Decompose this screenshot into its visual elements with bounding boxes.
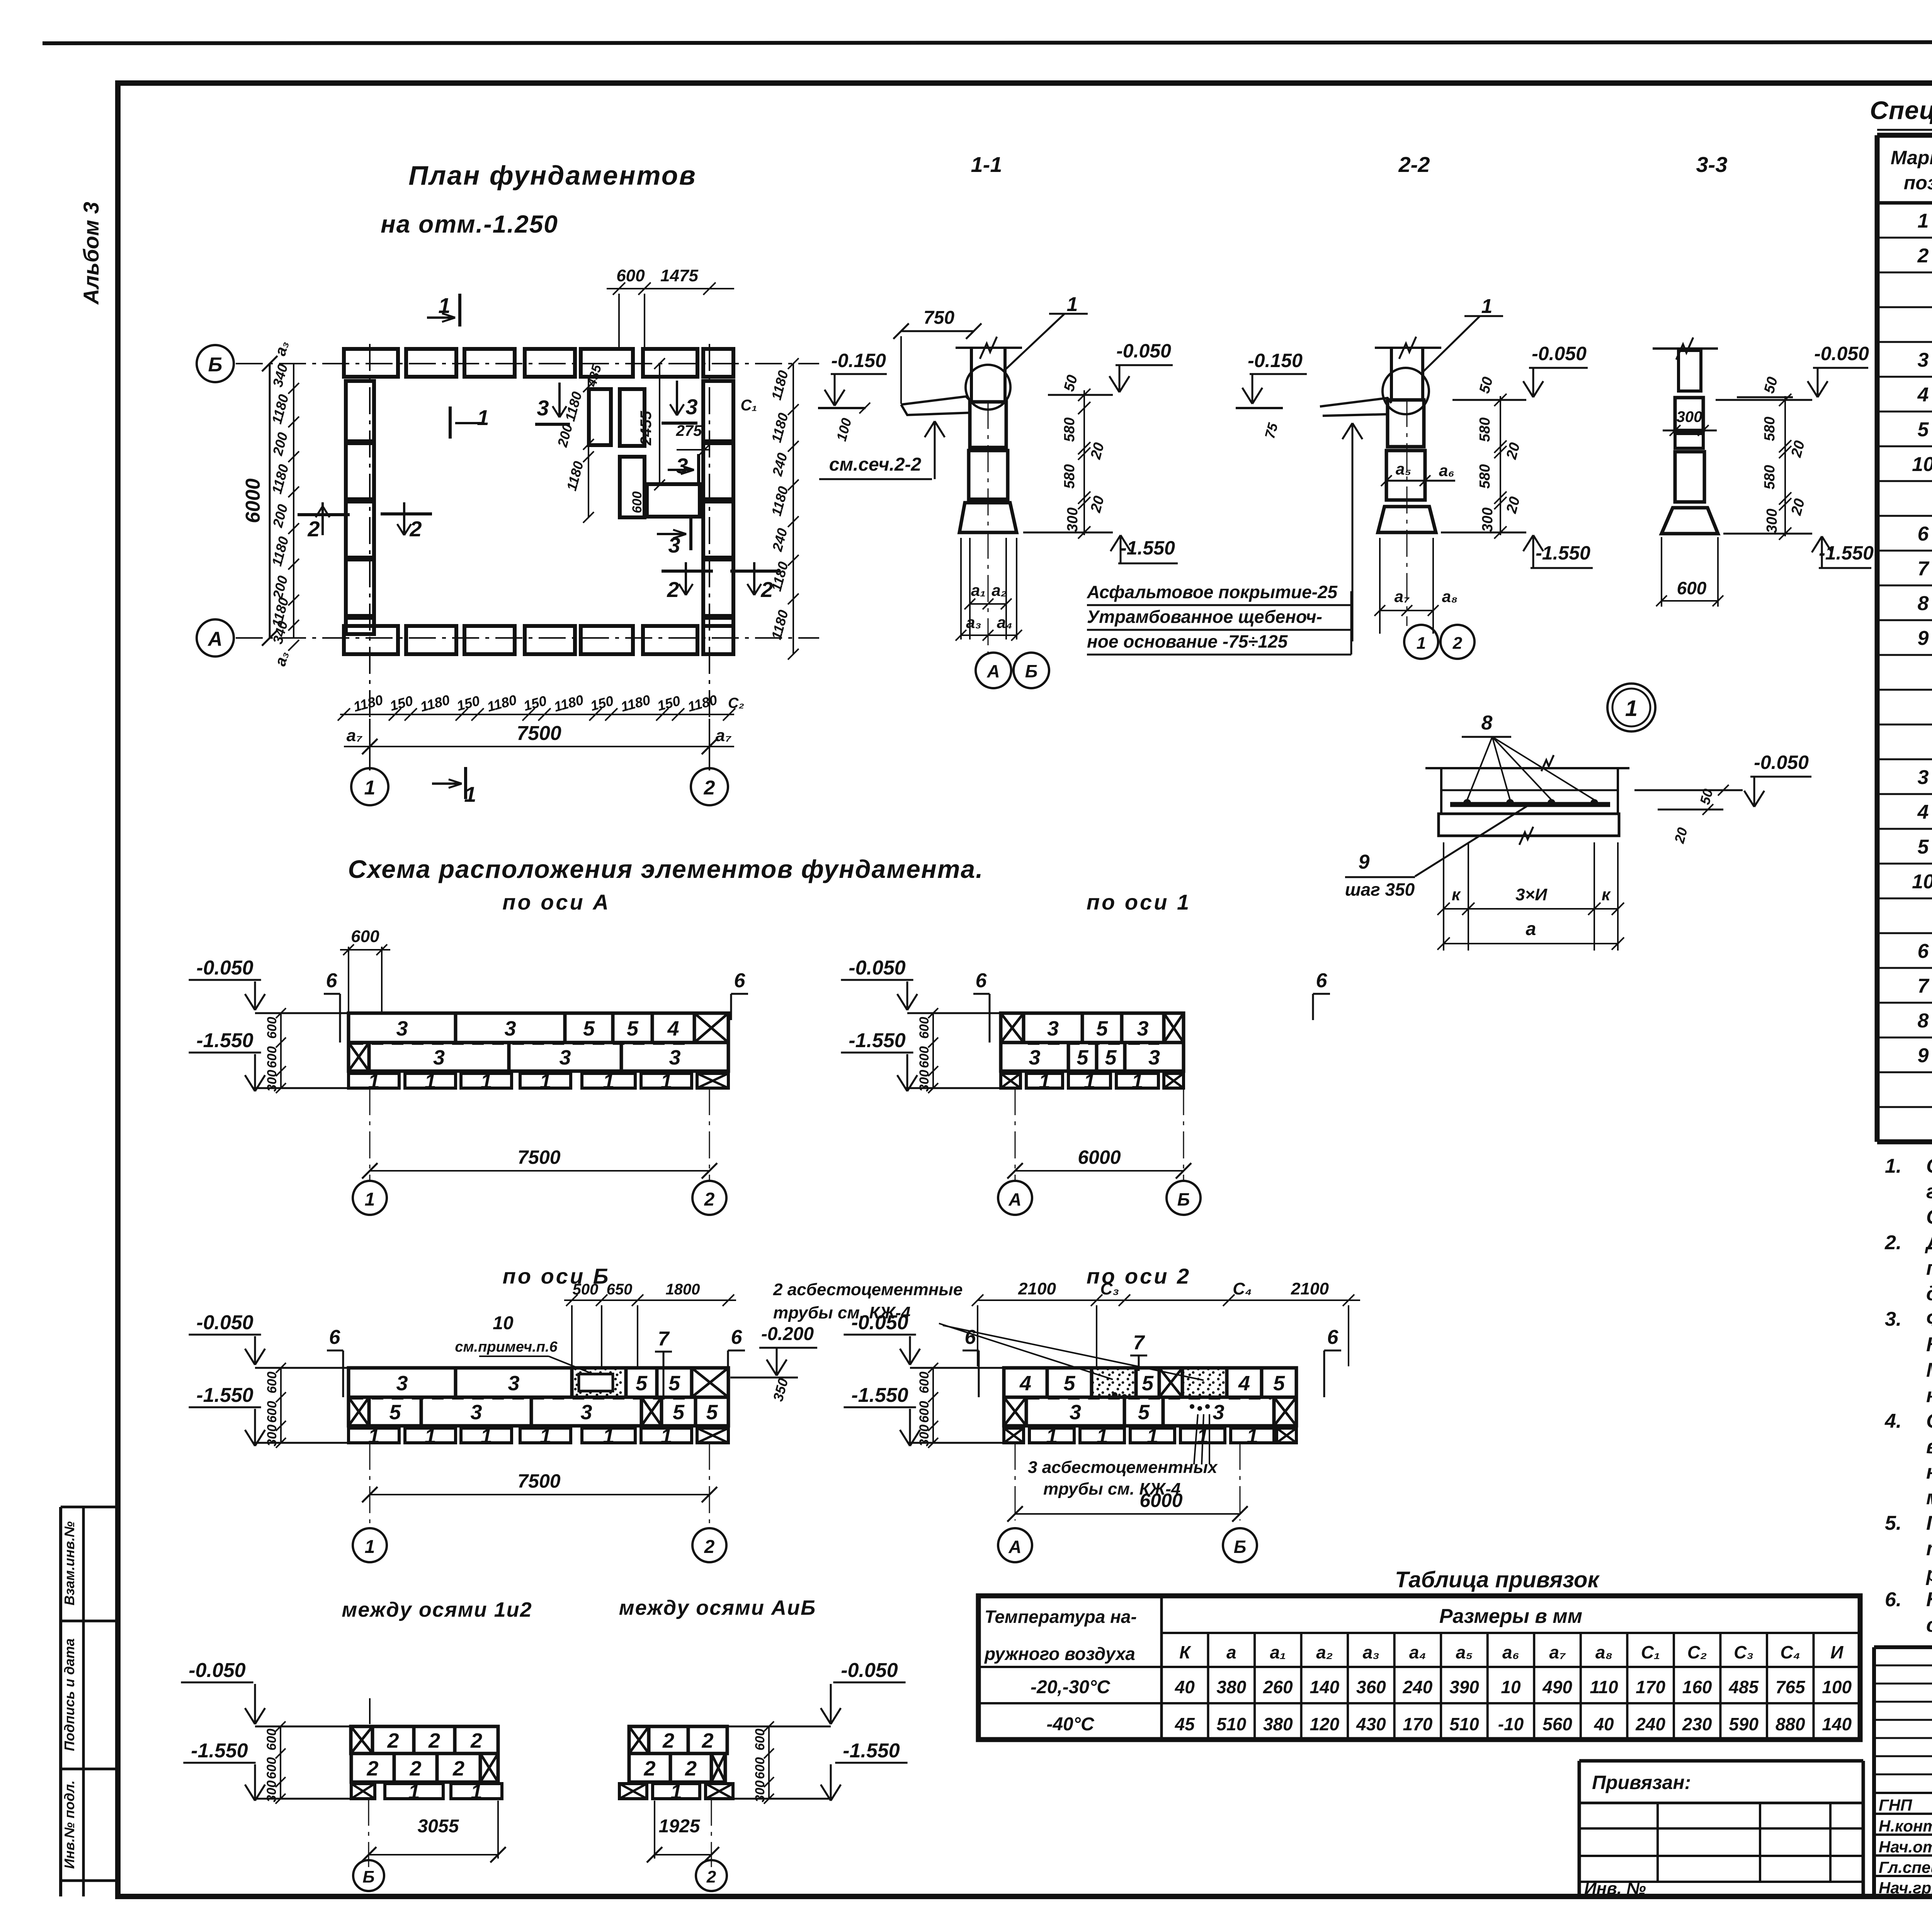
- svg-text:580: 580: [1061, 417, 1078, 442]
- svg-text:600: 600: [265, 1401, 279, 1423]
- svg-text:С₄: С₄: [1233, 1279, 1252, 1298]
- svg-text:600: 600: [616, 266, 645, 285]
- svg-text:4: 4: [667, 1017, 679, 1040]
- svg-text:между осями АиБ: между осями АиБ: [619, 1596, 816, 1619]
- svg-text:а₃: а₃: [966, 613, 981, 631]
- svg-text:а₈: а₈: [1442, 587, 1458, 605]
- svg-text:5: 5: [1142, 1372, 1154, 1395]
- svg-text:110: 110: [1590, 1677, 1618, 1697]
- svg-text:6.: 6.: [1885, 1588, 1901, 1611]
- svg-text:между осями 1и2: между осями 1и2: [342, 1598, 532, 1621]
- svg-text:С₄: С₄: [1780, 1642, 1800, 1662]
- svg-text:шаг 350: шаг 350: [1345, 879, 1415, 900]
- svg-text:1: 1: [365, 1537, 375, 1557]
- svg-text:3: 3: [508, 1372, 519, 1395]
- svg-text:3-3: 3-3: [1696, 152, 1728, 177]
- svg-text:1: 1: [424, 1425, 436, 1448]
- svg-text:а₇: а₇: [347, 726, 362, 745]
- svg-text:а₇: а₇: [716, 726, 731, 745]
- svg-text:С₁: С₁: [1641, 1642, 1660, 1662]
- svg-text:1: 1: [477, 405, 489, 430]
- svg-text:см.сеч.2-2: см.сеч.2-2: [829, 454, 922, 475]
- svg-text:600: 600: [917, 1372, 932, 1394]
- svg-text:2: 2: [667, 577, 679, 602]
- svg-text:С₂: С₂: [1687, 1642, 1707, 1662]
- svg-text:230: 230: [1682, 1714, 1712, 1734]
- svg-text:3: 3: [1047, 1017, 1059, 1040]
- svg-text:380: 380: [1263, 1714, 1293, 1734]
- svg-text:а₅: а₅: [1396, 460, 1411, 478]
- svg-text:560: 560: [1543, 1714, 1572, 1734]
- svg-text:5: 5: [1077, 1046, 1088, 1069]
- svg-text:510: 510: [1449, 1714, 1479, 1734]
- svg-text:1: 1: [539, 1070, 551, 1093]
- svg-text:1: 1: [603, 1425, 614, 1448]
- svg-text:3 асбестоцементных: 3 асбестоцементных: [1028, 1458, 1218, 1477]
- svg-text:3: 3: [433, 1046, 445, 1069]
- svg-text:-1.550: -1.550: [849, 1029, 906, 1052]
- svg-text:2: 2: [409, 1757, 421, 1780]
- svg-text:поз.: поз.: [1904, 172, 1932, 194]
- svg-text:ружного воздуха: ружного воздуха: [984, 1644, 1135, 1664]
- svg-text:8: 8: [1481, 712, 1493, 734]
- svg-text:9: 9: [1918, 627, 1929, 650]
- svg-text:ное основание -75÷125: ное основание -75÷125: [1087, 631, 1288, 651]
- svg-text:6: 6: [731, 1326, 743, 1349]
- svg-text:почвенно-растительный слой сре: почвенно-растительный слой срезать полно…: [1926, 1257, 1932, 1279]
- svg-text:3055: 3055: [418, 1816, 459, 1837]
- svg-text:3: 3: [396, 1017, 408, 1040]
- svg-text:Гл.спец.: Гл.спец.: [1879, 1858, 1932, 1876]
- svg-text:2100: 2100: [1291, 1279, 1329, 1298]
- svg-text:5: 5: [1105, 1046, 1117, 1069]
- svg-text:2: 2: [704, 1537, 715, 1557]
- svg-text:тонный пояс выполняется из цем: тонный пояс выполняется из цементно-песч…: [1926, 1537, 1932, 1560]
- svg-text:-0.050: -0.050: [189, 1659, 246, 1682]
- svg-text:510: 510: [1216, 1714, 1246, 1734]
- svg-text:-1.550: -1.550: [196, 1029, 253, 1052]
- svg-text:а₄: а₄: [1409, 1642, 1426, 1662]
- svg-text:45: 45: [1175, 1714, 1196, 1734]
- svg-text:100: 100: [1822, 1677, 1852, 1697]
- svg-text:для дальнейшего использования: для дальнейшего использования его при оз…: [1926, 1282, 1932, 1305]
- svg-text:2: 2: [470, 1729, 482, 1752]
- svg-text:а₅: а₅: [1456, 1642, 1473, 1662]
- svg-text:1: 1: [1067, 293, 1078, 316]
- svg-text:2: 2: [706, 1867, 716, 1886]
- svg-text:к: к: [1602, 885, 1611, 904]
- svg-text:300: 300: [1480, 507, 1496, 532]
- svg-text:590: 590: [1729, 1714, 1759, 1734]
- svg-text:1: 1: [1046, 1425, 1058, 1448]
- svg-text:Взам.инв.№: Взам.инв.№: [61, 1521, 77, 1605]
- svg-text:2100: 2100: [1018, 1279, 1056, 1298]
- svg-text:1: 1: [1417, 634, 1426, 653]
- svg-text:485: 485: [1728, 1677, 1759, 1697]
- svg-text:1475: 1475: [660, 266, 698, 285]
- svg-text:а₆: а₆: [1439, 461, 1454, 480]
- svg-text:390: 390: [1449, 1677, 1479, 1697]
- svg-text:300: 300: [1764, 509, 1780, 533]
- svg-text:580: 580: [1061, 464, 1078, 488]
- svg-text:600: 600: [351, 927, 379, 946]
- svg-text:3: 3: [396, 1372, 408, 1395]
- svg-text:-0.050: -0.050: [1116, 340, 1171, 362]
- svg-text:1925: 1925: [659, 1816, 701, 1837]
- svg-text:Температура на-: Температура на-: [985, 1607, 1137, 1627]
- svg-text:-10: -10: [1498, 1714, 1524, 1734]
- svg-text:170: 170: [1636, 1677, 1665, 1697]
- svg-text:-0.050: -0.050: [1814, 343, 1869, 364]
- svg-text:трубы см. КЖ-4: трубы см. КЖ-4: [773, 1303, 910, 1322]
- svg-text:а: а: [1526, 919, 1536, 939]
- svg-text:Размеры в мм: Размеры в мм: [1439, 1605, 1582, 1628]
- svg-text:1: 1: [1247, 1425, 1258, 1448]
- svg-text:600: 600: [265, 1017, 279, 1039]
- svg-text:а₇: а₇: [1395, 587, 1410, 605]
- svg-text:1: 1: [1083, 1070, 1095, 1093]
- svg-text:менее 0.95.: менее 0.95.: [1926, 1486, 1932, 1509]
- svg-text:2: 2: [685, 1757, 697, 1780]
- svg-text:2: 2: [662, 1729, 674, 1752]
- svg-text:Б: Б: [362, 1867, 374, 1886]
- svg-text:Подпись и дата: Подпись и дата: [61, 1638, 77, 1751]
- svg-text:7: 7: [658, 1328, 670, 1350]
- svg-text:а₁: а₁: [1270, 1642, 1286, 1662]
- svg-text:ГНП: ГНП: [1879, 1796, 1912, 1814]
- svg-text:3: 3: [1148, 1046, 1160, 1069]
- svg-text:600: 600: [917, 1017, 932, 1039]
- svg-text:2: 2: [387, 1729, 399, 1752]
- svg-text:1: 1: [603, 1070, 614, 1093]
- svg-text:на отм.-1.250: на отм.-1.250: [381, 210, 558, 238]
- svg-text:4: 4: [1917, 801, 1929, 823]
- svg-text:3: 3: [1918, 349, 1929, 371]
- svg-text:а₈: а₈: [1595, 1642, 1612, 1662]
- svg-text:Фундаментные плиты укладываютс: Фундаментные плиты укладываются на вырав…: [1926, 1308, 1932, 1330]
- svg-text:-0.050: -0.050: [849, 957, 906, 979]
- svg-text:5: 5: [627, 1017, 639, 1040]
- svg-text:2: 2: [704, 1189, 715, 1210]
- svg-text:-0.050: -0.050: [1754, 752, 1809, 773]
- svg-text:с шагом 100 мм.: с шагом 100 мм.: [1926, 1614, 1932, 1636]
- svg-text:К: К: [1179, 1642, 1191, 1662]
- svg-text:1: 1: [1481, 295, 1493, 318]
- svg-text:а₂: а₂: [1316, 1642, 1333, 1662]
- svg-text:2455: 2455: [638, 411, 655, 446]
- svg-text:-1.550: -1.550: [196, 1384, 253, 1406]
- svg-text:1: 1: [670, 1781, 682, 1804]
- svg-text:Горизонтальная, гидроизоляция: Горизонтальная, гидроизоляция и монолитн…: [1926, 1512, 1932, 1534]
- svg-text:160: 160: [1682, 1677, 1712, 1697]
- svg-text:7: 7: [1133, 1332, 1145, 1354]
- svg-text:-1.550: -1.550: [843, 1740, 900, 1762]
- svg-text:2: 2: [307, 517, 320, 541]
- svg-text:5: 5: [1138, 1401, 1150, 1424]
- svg-text:1: 1: [1131, 1070, 1143, 1093]
- svg-text:3: 3: [504, 1017, 516, 1040]
- svg-text:А: А: [1008, 1189, 1021, 1209]
- svg-text:6: 6: [1918, 940, 1929, 963]
- svg-text:6: 6: [734, 969, 746, 992]
- svg-text:3: 3: [559, 1046, 571, 1069]
- svg-text:Инв. №: Инв. №: [1584, 1879, 1646, 1898]
- svg-text:к: к: [1452, 885, 1461, 904]
- svg-text:650: 650: [607, 1281, 633, 1298]
- svg-text:Утрамбованное щебеноч-: Утрамбованное щебеноч-: [1087, 607, 1322, 627]
- svg-text:А: А: [207, 628, 223, 650]
- svg-text:5.: 5.: [1885, 1512, 1901, 1534]
- svg-text:6000: 6000: [242, 478, 264, 523]
- svg-text:120: 120: [1310, 1714, 1339, 1734]
- svg-text:М50.Швы между блоками заполняю: М50.Швы между блоками заполняются цемент…: [1926, 1359, 1932, 1381]
- svg-text:5: 5: [668, 1372, 680, 1395]
- svg-text:3: 3: [1137, 1017, 1148, 1040]
- svg-text:2.: 2.: [1884, 1231, 1901, 1254]
- svg-text:-0.050: -0.050: [841, 1659, 898, 1682]
- svg-text:2: 2: [409, 517, 422, 541]
- svg-text:580: 580: [1477, 464, 1493, 488]
- svg-text:600: 600: [264, 1729, 279, 1751]
- svg-text:3: 3: [537, 396, 549, 420]
- svg-text:6: 6: [1327, 1326, 1339, 1349]
- svg-text:всех сторон фундамента слоями: всех сторон фундамента слоями по 0.2-0.3…: [1926, 1435, 1932, 1458]
- svg-text:1: 1: [539, 1425, 551, 1448]
- svg-text:300: 300: [1065, 507, 1081, 532]
- svg-text:430: 430: [1356, 1714, 1386, 1734]
- svg-text:Б: Б: [1234, 1537, 1247, 1557]
- svg-text:2: 2: [1917, 245, 1929, 267]
- svg-text:Таблица привязок: Таблица привязок: [1395, 1567, 1600, 1592]
- svg-text:-0.050: -0.050: [1532, 343, 1587, 364]
- svg-text:Над проемом установить отдельн: Над проемом установить отдельные стержни…: [1926, 1588, 1932, 1611]
- svg-text:Спецификация элементов к схеме: Спецификация элементов к схеме расположе…: [1870, 96, 1932, 124]
- svg-text:140: 140: [1822, 1714, 1852, 1734]
- svg-text:8: 8: [1918, 592, 1929, 615]
- svg-text:6: 6: [1918, 523, 1929, 545]
- svg-text:-0.050: -0.050: [196, 957, 253, 979]
- svg-text:10: 10: [1912, 453, 1932, 476]
- svg-text:5: 5: [1918, 418, 1929, 441]
- svg-text:1: 1: [471, 1781, 482, 1804]
- svg-text:5: 5: [1273, 1372, 1285, 1395]
- svg-text:3: 3: [669, 1046, 680, 1069]
- svg-text:170: 170: [1403, 1714, 1433, 1734]
- svg-text:-0.050: -0.050: [196, 1311, 253, 1334]
- svg-text:7500: 7500: [517, 1146, 560, 1168]
- svg-text:Асфальтовое покрытие-25: Асфальтовое покрытие-25: [1087, 582, 1338, 602]
- svg-text:4: 4: [1238, 1372, 1250, 1395]
- svg-text:3: 3: [1070, 1401, 1081, 1424]
- svg-text:3: 3: [1029, 1046, 1040, 1069]
- svg-text:4.: 4.: [1884, 1410, 1901, 1432]
- svg-text:а₆: а₆: [1502, 1642, 1519, 1662]
- svg-text:240: 240: [1403, 1677, 1433, 1697]
- svg-text:600: 600: [264, 1757, 279, 1779]
- svg-text:-20,-30°С: -20,-30°С: [1031, 1677, 1111, 1697]
- svg-text:600: 600: [265, 1046, 279, 1068]
- svg-text:1: 1: [408, 1781, 420, 1804]
- svg-text:6: 6: [976, 969, 987, 992]
- svg-text:Схема расположения элементов: Схема расположения элементов фундамента.: [348, 855, 984, 883]
- svg-text:2 асбестоцементные: 2 асбестоцементные: [773, 1280, 963, 1299]
- svg-text:1: 1: [1918, 210, 1929, 232]
- svg-text:Обратную засыпку котлована про: Обратную засыпку котлована производить р…: [1926, 1410, 1932, 1432]
- svg-text:а: а: [1226, 1642, 1236, 1662]
- svg-text:Б: Б: [1025, 661, 1038, 681]
- svg-text:7500: 7500: [517, 1470, 560, 1492]
- svg-text:С₁: С₁: [741, 397, 757, 414]
- svg-text:2: 2: [704, 777, 715, 799]
- svg-text:5: 5: [706, 1401, 718, 1424]
- svg-text:140: 140: [1310, 1677, 1339, 1697]
- svg-text:-1.550: -1.550: [1536, 542, 1590, 564]
- svg-text:5: 5: [1096, 1017, 1108, 1040]
- svg-text:600: 600: [753, 1729, 767, 1751]
- svg-text:ным раствором М50.: ным раствором М50.: [1926, 1384, 1932, 1407]
- svg-text:380: 380: [1216, 1677, 1246, 1697]
- svg-text:1: 1: [364, 777, 376, 799]
- svg-text:500: 500: [573, 1281, 599, 1298]
- svg-text:5: 5: [389, 1401, 401, 1424]
- svg-text:раствора М50.: раствора М50.: [1925, 1563, 1932, 1585]
- svg-text:6000: 6000: [1139, 1490, 1182, 1511]
- svg-text:3: 3: [470, 1401, 482, 1424]
- svg-text:360: 360: [1356, 1677, 1386, 1697]
- svg-text:1: 1: [365, 1189, 375, 1210]
- svg-text:9: 9: [1359, 851, 1370, 873]
- svg-text:а₇: а₇: [1549, 1642, 1566, 1662]
- svg-text:4: 4: [1917, 384, 1929, 406]
- svg-text:1800: 1800: [666, 1281, 700, 1298]
- svg-text:1: 1: [1146, 1425, 1158, 1448]
- svg-text:10: 10: [493, 1313, 514, 1333]
- svg-text:Основанием под фундаменты прин: Основанием под фундаменты приняты непучи…: [1926, 1155, 1932, 1177]
- svg-text:600: 600: [917, 1046, 932, 1068]
- svg-text:1: 1: [480, 1425, 492, 1448]
- svg-text:3: 3: [1918, 766, 1929, 789]
- svg-text:1-1: 1-1: [971, 152, 1002, 177]
- svg-text:5: 5: [1918, 836, 1929, 858]
- svg-text:Нач.гр.: Нач.гр.: [1879, 1879, 1932, 1897]
- svg-text:-1.550: -1.550: [851, 1384, 908, 1406]
- svg-text:240: 240: [1635, 1714, 1665, 1734]
- svg-text:600: 600: [1677, 578, 1707, 598]
- svg-text:580: 580: [1762, 417, 1778, 441]
- svg-text:7500: 7500: [517, 722, 561, 745]
- svg-text:см.примеч.п.6: см.примеч.п.6: [455, 1339, 558, 1355]
- svg-text:С=0,02 кгс/м², Е=150кгс/м², γ: С=0,02 кгс/м², Е=150кгс/м², γ=1.8 тс/м³,…: [1926, 1206, 1932, 1228]
- svg-text:Марка,: Марка,: [1891, 147, 1932, 168]
- svg-text:6: 6: [965, 1326, 976, 1349]
- svg-text:2: 2: [1452, 634, 1463, 653]
- svg-text:нием до достижения коэффициент: нием до достижения коэффициента уплотнен…: [1926, 1461, 1932, 1483]
- svg-text:Б: Б: [1177, 1189, 1190, 1209]
- svg-text:Альбом 3: Альбом 3: [79, 202, 103, 305]
- svg-text:2-2: 2-2: [1398, 152, 1430, 177]
- svg-text:а₂: а₂: [992, 581, 1007, 599]
- svg-text:7: 7: [1918, 558, 1930, 580]
- svg-text:40: 40: [1594, 1714, 1614, 1734]
- svg-text:600: 600: [917, 1401, 932, 1423]
- svg-text:3: 3: [580, 1401, 592, 1424]
- svg-text:580: 580: [1762, 465, 1778, 489]
- svg-text:4: 4: [1019, 1372, 1031, 1395]
- svg-text:С₃: С₃: [1734, 1642, 1753, 1662]
- svg-text:А: А: [986, 661, 1000, 681]
- svg-text:6: 6: [326, 969, 338, 992]
- svg-text:9: 9: [1918, 1044, 1929, 1067]
- svg-text:С₂: С₂: [728, 695, 744, 711]
- svg-text:1: 1: [1039, 1070, 1050, 1093]
- svg-text:по оси 1: по оси 1: [1087, 890, 1191, 914]
- svg-text:580: 580: [1477, 417, 1493, 442]
- svg-text:А: А: [1008, 1537, 1021, 1557]
- svg-text:10: 10: [1912, 871, 1932, 893]
- svg-text:2: 2: [452, 1757, 464, 1780]
- svg-text:-0.200: -0.200: [761, 1324, 814, 1344]
- svg-text:5: 5: [1063, 1372, 1075, 1395]
- svg-text:С₃: С₃: [1100, 1279, 1119, 1298]
- svg-text:1: 1: [1625, 696, 1638, 721]
- svg-text:1: 1: [1096, 1425, 1108, 1448]
- svg-text:-1.550: -1.550: [191, 1740, 248, 1762]
- svg-text:1: 1: [480, 1070, 492, 1093]
- svg-text:6000: 6000: [1078, 1146, 1121, 1168]
- svg-text:3: 3: [685, 395, 697, 419]
- svg-text:-40°С: -40°С: [1046, 1714, 1095, 1735]
- svg-text:5: 5: [583, 1017, 595, 1040]
- svg-text:2: 2: [760, 577, 773, 602]
- svg-text:грунты со следующими нормативн: грунты со следующими нормативными характ…: [1926, 1180, 1932, 1203]
- svg-text:3: 3: [1213, 1401, 1224, 1424]
- svg-text:1.: 1.: [1885, 1155, 1901, 1177]
- svg-text:765: 765: [1776, 1677, 1806, 1697]
- svg-text:3.: 3.: [1885, 1308, 1901, 1330]
- svg-text:490: 490: [1542, 1677, 1572, 1697]
- svg-text:а₁: а₁: [971, 581, 986, 599]
- svg-text:5: 5: [673, 1401, 685, 1424]
- svg-text:300: 300: [1677, 408, 1702, 425]
- svg-text:6: 6: [1316, 969, 1328, 992]
- svg-text:Инв.№ подл.: Инв.№ подл.: [61, 1780, 77, 1869]
- svg-text:по оси А: по оси А: [502, 890, 611, 914]
- svg-text:-0.150: -0.150: [831, 350, 886, 371]
- svg-text:40: 40: [1175, 1677, 1195, 1697]
- svg-text:Нач.отд.: Нач.отд.: [1879, 1838, 1932, 1856]
- svg-text:Привязан:: Привязан:: [1592, 1772, 1691, 1793]
- svg-text:План фундаментов: План фундаментов: [408, 160, 697, 190]
- svg-text:1: 1: [660, 1070, 672, 1093]
- svg-text:1: 1: [424, 1070, 436, 1093]
- svg-text:2: 2: [428, 1729, 440, 1752]
- svg-text:8: 8: [1918, 1010, 1929, 1032]
- svg-text:2: 2: [701, 1729, 713, 1752]
- svg-text:600: 600: [630, 492, 645, 514]
- svg-text:Кладка блоков ведется на цемен: Кладка блоков ведется на цементно-песчан…: [1926, 1333, 1932, 1356]
- svg-text:275: 275: [676, 422, 702, 439]
- svg-text:260: 260: [1263, 1677, 1293, 1697]
- svg-text:2: 2: [643, 1757, 655, 1780]
- svg-text:Б: Б: [208, 354, 223, 376]
- svg-text:7: 7: [1918, 975, 1930, 997]
- svg-text:5: 5: [636, 1372, 648, 1395]
- svg-text:6: 6: [329, 1326, 341, 1349]
- svg-text:880: 880: [1776, 1714, 1805, 1734]
- svg-text:а₄: а₄: [997, 613, 1012, 631]
- svg-text:1: 1: [660, 1425, 672, 1448]
- svg-text:600: 600: [753, 1757, 767, 1779]
